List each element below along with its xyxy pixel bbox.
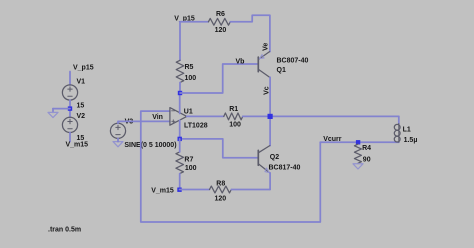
svg-text:Vin: Vin xyxy=(152,114,163,121)
svg-text:V_m15: V_m15 xyxy=(66,141,89,148)
svg-text:V1: V1 xyxy=(77,78,86,85)
svg-text:Vcurr: Vcurr xyxy=(323,136,342,143)
wire op-amp V+ supply xyxy=(179,93,181,114)
svg-text:Q1: Q1 xyxy=(277,67,286,74)
svg-text:R8: R8 xyxy=(216,181,225,188)
svg-text:100: 100 xyxy=(185,165,197,172)
svg-text:BC817-40: BC817-40 xyxy=(269,165,301,172)
resistor R5 xyxy=(176,60,184,82)
wire xyxy=(179,83,181,94)
wire xyxy=(180,189,210,191)
resistor R6 xyxy=(208,18,230,25)
svg-text:V_m15: V_m15 xyxy=(151,187,174,194)
wire xyxy=(53,108,70,110)
svg-text:R1: R1 xyxy=(229,106,238,113)
op-amp U1 LT1028 xyxy=(170,108,187,126)
wire xyxy=(179,139,181,152)
wire Q2 emitter xyxy=(269,173,271,190)
voltage source V3 xyxy=(110,123,125,138)
svg-text:V2: V2 xyxy=(77,113,86,120)
wire feedback loop xyxy=(141,111,320,222)
node junction output Vc xyxy=(268,114,273,119)
wire xyxy=(180,21,208,23)
resistor R8 xyxy=(210,186,232,193)
wire xyxy=(243,115,399,117)
node junction op-amp V-/R7 xyxy=(178,137,182,141)
wire op-amp V- supply xyxy=(179,120,181,139)
node junction R5/op-amp V+ xyxy=(178,91,182,95)
wire xyxy=(230,15,270,51)
svg-text:100: 100 xyxy=(185,75,197,82)
svg-text:120: 120 xyxy=(215,195,227,202)
wire xyxy=(231,189,270,191)
resistor R1 xyxy=(224,113,243,120)
wire xyxy=(52,109,54,113)
svg-text:L1: L1 xyxy=(403,126,411,133)
svg-text:BC807-40: BC807-40 xyxy=(277,58,309,65)
svg-text:LT1028: LT1028 xyxy=(184,122,208,129)
Q2 emitter arrow (NPN) xyxy=(265,168,269,172)
wire xyxy=(179,22,181,61)
ground xyxy=(353,164,363,169)
svg-text:100: 100 xyxy=(229,121,241,128)
wire op-amp output xyxy=(187,115,224,117)
wire Vcurr xyxy=(320,141,399,143)
svg-text:Ve: Ve xyxy=(263,43,270,51)
svg-text:R4: R4 xyxy=(362,145,371,152)
transistor Q1 body xyxy=(257,57,259,72)
wire Q2 base net xyxy=(180,139,258,158)
wire xyxy=(69,133,71,142)
svg-text:V_p15: V_p15 xyxy=(73,65,94,72)
svg-text:15: 15 xyxy=(77,102,85,109)
wire xyxy=(69,100,71,117)
svg-text:R5: R5 xyxy=(185,64,194,71)
voltage source V2 xyxy=(62,117,77,132)
svg-text:.tran 0.5m: .tran 0.5m xyxy=(48,227,81,234)
node junction V1/V2 midpoint xyxy=(68,106,72,110)
voltage source V1 xyxy=(62,85,77,100)
wire xyxy=(118,121,170,123)
wire xyxy=(69,72,71,86)
node junction V_m15 rail xyxy=(177,188,181,192)
wire xyxy=(117,138,119,141)
svg-text:R6: R6 xyxy=(216,11,225,18)
svg-text:SINE(0 5 10000): SINE(0 5 10000) xyxy=(124,142,176,149)
transistor Q2 body xyxy=(257,150,259,165)
wire xyxy=(179,174,181,190)
svg-text:U1: U1 xyxy=(184,108,193,115)
ground xyxy=(113,142,123,147)
Q1 emitter arrow (PNP) xyxy=(260,55,264,59)
node junction R4 tap xyxy=(356,140,360,144)
inductor L1 xyxy=(398,124,400,143)
svg-text:120: 120 xyxy=(215,27,227,34)
svg-text:90: 90 xyxy=(363,156,371,163)
resistor R4 xyxy=(354,144,361,163)
wire xyxy=(398,116,400,123)
svg-text:Q2: Q2 xyxy=(270,154,279,161)
svg-text:1.5µ: 1.5µ xyxy=(404,137,418,144)
ground xyxy=(48,112,58,117)
svg-text:R7: R7 xyxy=(184,156,193,163)
svg-text:Vb: Vb xyxy=(236,59,245,66)
resistor R7 xyxy=(176,152,184,174)
wire Q1 collector xyxy=(269,77,271,145)
wire Vb net xyxy=(180,64,258,93)
